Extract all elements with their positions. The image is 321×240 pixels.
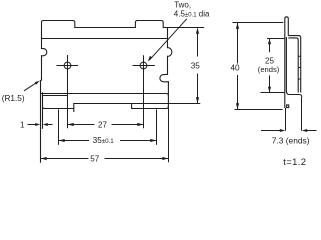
side view top bend horizontal — [288, 36, 300, 38]
left deep flange bottom — [43, 104, 74, 112]
arrow dim1 right — [43, 123, 48, 126]
side view left 7.3 ext — [285, 108, 287, 131]
arrow dim25 bottom — [268, 87, 271, 93]
right edge lower — [167, 82, 169, 109]
svg-text:40: 40 — [231, 63, 241, 72]
left edge lower segment — [41, 56, 43, 79]
svg-text:27: 27 — [98, 120, 107, 129]
svg-text:(R1.5): (R1.5) — [2, 94, 25, 103]
arrow dim25 top — [268, 39, 271, 45]
top profile with two raised tabs — [42, 21, 204, 49]
arrow dim1 left — [35, 123, 40, 126]
right edge middle — [167, 56, 169, 74]
side view right wall inner — [288, 38, 298, 93]
R1.5 step corner — [41, 79, 42, 81]
svg-text:4.5±0.1 dia: 4.5±0.1 dia — [174, 9, 210, 18]
svg-text:Two,: Two, — [174, 1, 191, 10]
side view 25 stub — [267, 38, 285, 40]
svg-text:1: 1 — [20, 121, 25, 130]
side view bottom hook box — [287, 105, 289, 108]
left edge notch (semicircular bump) — [42, 49, 47, 56]
main top edge — [42, 38, 168, 40]
arrow dim40 bottom — [236, 103, 239, 109]
arrow dim35p right — [150, 139, 156, 142]
side view right wall outer — [300, 38, 302, 93]
right edge upper — [167, 28, 169, 48]
arrow dim35v bottom — [196, 97, 199, 103]
arrow leader holes — [148, 56, 153, 62]
side view left wall inner — [285, 37, 287, 91]
dim 25 bottom ref stub — [261, 92, 285, 94]
right edge C-notch — [160, 74, 168, 81]
dim 35p line — [59, 140, 157, 142]
dim 40 top ext — [233, 22, 284, 24]
hole right crosshair — [133, 55, 155, 128]
arrow dim7.3 right — [302, 129, 308, 132]
svg-text:35: 35 — [191, 61, 201, 70]
flange left edge / 1-dim extension — [42, 93, 44, 129]
side view back plate right edge + 7.3 ext — [301, 97, 303, 131]
side view back plate top edge — [286, 91, 301, 98]
arrow dim35v top — [196, 28, 199, 34]
short inner bottom line — [43, 95, 68, 97]
dim 35v line — [197, 29, 199, 104]
svg-text:(ends): (ends) — [258, 65, 280, 74]
leader line holes — [150, 19, 187, 60]
arrow dim40 top — [236, 23, 239, 29]
arrow leader R1.5 — [35, 81, 40, 85]
svg-text:t=1.2: t=1.2 — [283, 156, 306, 167]
dim 57 right ext bar — [168, 109, 170, 162]
arrow dim7.3 left — [280, 129, 286, 132]
back plate left edge / 57-dim extension — [40, 81, 42, 162]
side view left wall outer + top hook — [285, 17, 289, 108]
svg-text:35±0.1: 35±0.1 — [93, 136, 114, 145]
dim 40 bottom ext — [235, 109, 283, 111]
dim 27 line — [68, 124, 144, 126]
dim 25 line — [269, 39, 271, 92]
hole left crosshair — [57, 55, 79, 128]
arrow dim35p left — [59, 139, 65, 142]
dim 40 line — [237, 23, 239, 110]
svg-text:7.3 (ends): 7.3 (ends) — [272, 135, 310, 145]
leader line R1.5 — [24, 82, 38, 91]
arrow dim57 left — [41, 157, 47, 160]
hole left circle — [64, 62, 71, 69]
hole right circle — [140, 62, 147, 69]
svg-text:57: 57 — [90, 154, 99, 163]
arrow dim27 left — [68, 123, 74, 126]
dim 7.3 tails — [261, 130, 317, 132]
arrow dim57 right — [162, 157, 168, 160]
main bottom edge — [42, 94, 169, 96]
shallow flange bottom + 35-dim extension — [74, 103, 200, 105]
right edge D-bump — [168, 48, 172, 57]
right deep flange bottom — [132, 104, 169, 109]
arrow dim27 right — [137, 123, 143, 126]
dim 57 line — [41, 158, 169, 160]
dim 1 tails — [28, 124, 53, 126]
dim 35p ext bars — [59, 109, 157, 144]
side view right wall rungs — [298, 56, 301, 79]
